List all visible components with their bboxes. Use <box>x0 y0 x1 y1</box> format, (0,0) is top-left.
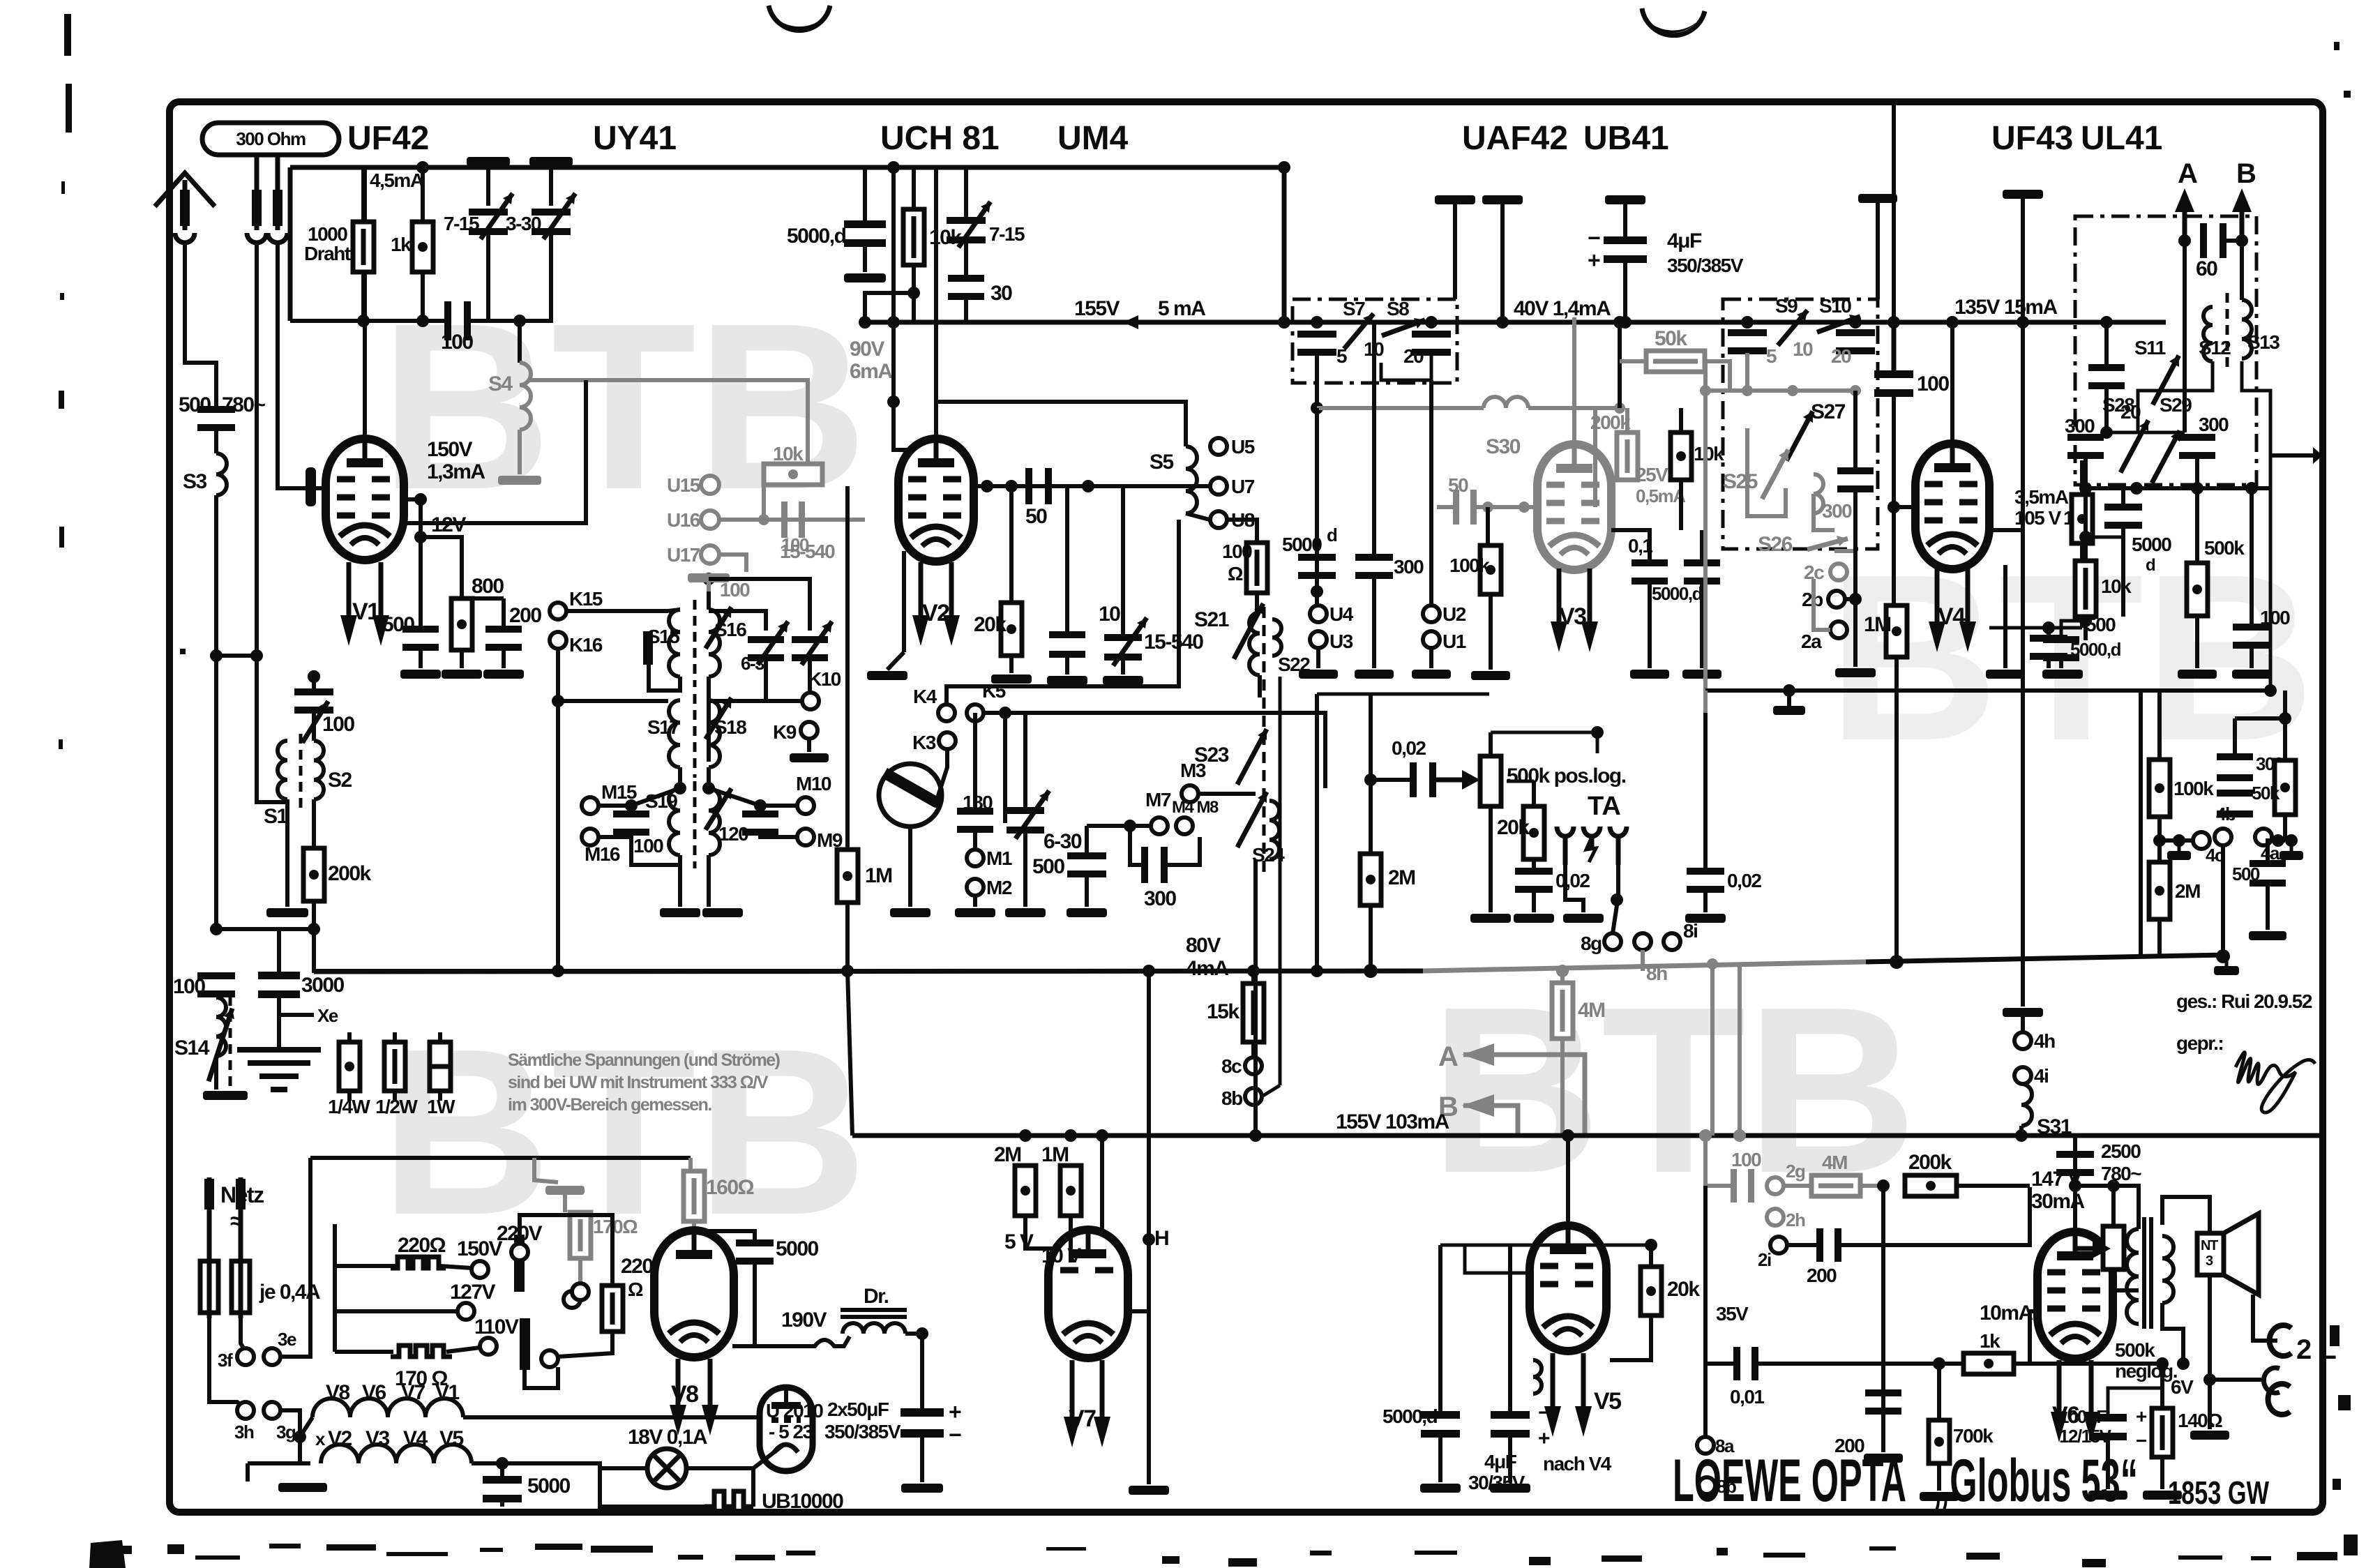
wire 2990 down <box>2084 488 2088 495</box>
capacitor 100 e <box>1874 370 1913 397</box>
wire sel 150V <box>440 1266 472 1268</box>
svg-text:300: 300 <box>1394 556 1424 578</box>
junction V5 anode <box>1562 1129 1574 1142</box>
label 0,1 <box>1628 535 1652 557</box>
label 20k ta <box>1497 816 1530 839</box>
transformer S1S2 core <box>299 734 303 809</box>
terminal 4a <box>2255 829 2280 864</box>
label 10k gray <box>773 443 804 465</box>
legend stubs <box>349 1032 440 1101</box>
wire S14 gnd <box>214 1059 218 1090</box>
wire cathode link <box>1989 626 2082 630</box>
svg-text:50k: 50k <box>1655 327 1687 350</box>
wire hr2 right <box>472 1463 600 1468</box>
svg-text:110V: 110V <box>474 1316 519 1339</box>
capacitor 100 coupling <box>444 301 471 340</box>
svg-text:M16: M16 <box>585 843 620 865</box>
wire 4Mi down <box>1881 1186 1885 1423</box>
ground 5000dv5 <box>1420 1484 1461 1493</box>
label 90V (gray) <box>850 338 884 361</box>
terminal 8g <box>1581 933 1621 954</box>
wire U16 right (gray) <box>719 518 865 522</box>
label 5000d f <box>2070 639 2121 660</box>
wire trim IF bottoms <box>709 660 766 701</box>
wire box right down <box>1381 354 1431 380</box>
label 50 gray <box>1448 474 1468 496</box>
junction pot top <box>1591 726 1604 739</box>
label 80V <box>1186 934 1221 957</box>
label S10 <box>1819 295 1851 317</box>
svg-text:2g: 2g <box>1786 1161 1805 1182</box>
ground 140 <box>2143 1491 2182 1500</box>
svg-text:K16: K16 <box>569 634 603 656</box>
wire 20k branch <box>1009 486 1014 603</box>
resistor 220ohm sel <box>391 1257 446 1268</box>
wire bus2 up at 1800 <box>1253 971 1258 1136</box>
wire loop to 160ohm <box>688 1158 693 1171</box>
junction hr left <box>294 1431 306 1443</box>
label 30/35V <box>1468 1472 1525 1493</box>
ground 15-540 <box>1103 676 1143 685</box>
label 30 osc <box>990 282 1012 305</box>
terminal 8b <box>1221 1087 1262 1109</box>
capacitor 300 s25 <box>1837 467 1874 492</box>
IF1 core <box>693 600 697 687</box>
tube designator V7 <box>1069 1405 1096 1432</box>
coil S31 <box>2021 1084 2032 1126</box>
wire 5000 top stub <box>863 166 867 223</box>
resistor 170 gray v <box>570 1212 591 1258</box>
wire 2445 to 990 <box>1703 691 1708 713</box>
label V7 h <box>401 1381 425 1404</box>
svg-text:100: 100 <box>173 975 205 998</box>
wire S13 bottom <box>2242 361 2270 460</box>
wire shunt bot <box>2113 1269 2139 1290</box>
capacitor 0.02 right <box>1687 868 1724 893</box>
top bus left segment <box>290 167 1284 321</box>
wire 300f1 down <box>2084 458 2088 488</box>
svg-text:5000,d: 5000,d <box>1652 583 1703 604</box>
label 50 coupl <box>1025 505 1047 528</box>
resistor 1k <box>412 222 433 272</box>
label d f <box>2146 556 2155 575</box>
tube V5 <box>1530 1226 1606 1351</box>
wire S3 down <box>214 495 218 929</box>
resistor 15k <box>1243 983 1264 1042</box>
wire IF1 right top up <box>707 579 711 610</box>
label 100k v3 <box>1449 555 1490 576</box>
junction trimmers <box>513 315 526 327</box>
wire M10 wiring <box>760 806 797 817</box>
wire sel left col <box>333 1224 337 1352</box>
wire 10kf down <box>2084 617 2088 640</box>
label S25 <box>1723 470 1758 493</box>
label V3 h <box>366 1427 390 1450</box>
terminal 220V <box>511 1244 528 1260</box>
svg-text:300: 300 <box>1822 500 1852 522</box>
tube label UY41 <box>593 120 677 157</box>
junction row700 c <box>2191 482 2203 495</box>
IF2 coil S18 <box>709 700 720 767</box>
label 5mA <box>1158 297 1205 320</box>
svg-text:5 mA: 5 mA <box>1158 297 1205 320</box>
label S27 <box>1811 400 1846 423</box>
TA fork 1 <box>1557 827 1574 865</box>
wire 1ki to 140 <box>2038 1362 2162 1366</box>
terminal 3f <box>218 1348 254 1371</box>
junction 3255 bus990 <box>2264 684 2277 697</box>
terminal U1 <box>1423 631 1466 652</box>
wire 5000dv5 down <box>1438 1435 1442 1482</box>
wire 200i right <box>1841 1187 2030 1245</box>
signature <box>2236 1053 2315 1113</box>
wire S4 tap right (gray) <box>529 380 808 481</box>
wire 50k right (gray) <box>1705 361 1730 391</box>
capacitor 0.1 <box>1632 559 1668 585</box>
wire 15k top <box>1251 971 1256 983</box>
junction 140 top b <box>2177 1357 2190 1370</box>
junction 2M bus <box>1364 964 1378 978</box>
wire 60 to B <box>2225 239 2242 243</box>
svg-text:170Ω: 170Ω <box>593 1216 638 1237</box>
junction gray g1 <box>1482 502 1493 513</box>
coil S13 <box>2242 300 2252 359</box>
junction S2-top2 <box>308 670 320 683</box>
wire 10k ub41 down <box>1679 480 1683 530</box>
resistor 50k r <box>2275 760 2296 815</box>
wire plug2 down-lead <box>255 243 259 741</box>
svg-text:5: 5 <box>1336 345 1347 367</box>
junction V4 anode bus <box>1946 316 1959 329</box>
wire 300 gnd <box>1372 578 1376 668</box>
wire M9 wiring <box>760 829 797 837</box>
ground IF3 right <box>702 908 743 917</box>
mains lead 1 <box>204 1177 214 1261</box>
wire anode node up <box>2073 1136 2077 1186</box>
svg-text:K10: K10 <box>808 668 841 690</box>
tube V8 <box>654 1230 734 1357</box>
wire 12V node branches <box>419 537 423 628</box>
bus 155V <box>865 320 1876 325</box>
junction V4 grid <box>1887 501 1900 513</box>
wire K16 node down <box>556 701 560 971</box>
wire cap to S2 <box>312 712 316 741</box>
wire 160 down <box>692 1221 696 1231</box>
legend resistor 1W <box>427 1042 455 1117</box>
wire 8b tail <box>1262 1085 1280 1096</box>
capacitor 200 i <box>1816 1228 1841 1262</box>
wire gray S30 right <box>1528 406 1620 410</box>
junction 10kf bot <box>2079 615 2092 627</box>
wire 1215 link down <box>847 971 852 1136</box>
terminal M3 <box>1180 760 1206 802</box>
wire S1 bottom gnd <box>285 799 289 907</box>
junction gray 2322 <box>1614 402 1625 414</box>
switch S26 pointer <box>1807 536 1848 550</box>
wire gray link S30 <box>1317 406 1484 410</box>
wire 80 up <box>973 713 977 815</box>
wire 5000f down <box>2121 527 2125 617</box>
label 500 r <box>2232 864 2260 884</box>
wire s25 out <box>1853 391 1858 469</box>
svg-text:100: 100 <box>1731 1149 1761 1170</box>
wire hr left gnd <box>248 1461 300 1465</box>
tube label UB41 <box>1583 120 1669 157</box>
label S5 <box>1150 451 1174 474</box>
junction row460 b <box>416 315 429 327</box>
bus arrow marker <box>1123 315 1138 329</box>
wire TA fork3 down <box>1613 865 1618 933</box>
label 15-540 top (gray) <box>780 541 835 562</box>
wire sel wiring1 <box>335 1264 395 1268</box>
wire 4b down <box>2221 845 2225 956</box>
wire row700 tail <box>2269 460 2273 488</box>
tube V2 (UCH81) <box>898 439 974 561</box>
svg-text:3: 3 <box>2206 1253 2213 1269</box>
trimmer 7-15 osc <box>947 202 990 248</box>
switch arrow S24b <box>1237 792 1267 847</box>
label 180 <box>963 792 993 813</box>
svg-text:nach V4: nach V4 <box>1543 1453 1612 1475</box>
junction 20kv5 top <box>1645 1239 1657 1251</box>
svg-text:0,02: 0,02 <box>1555 870 1590 891</box>
label S19 <box>645 790 677 812</box>
label 1k i <box>1980 1330 2000 1352</box>
wire S12 down <box>2138 361 2213 432</box>
left margin scan marks <box>59 14 186 749</box>
svg-text:50k: 50k <box>2252 783 2280 804</box>
svg-text:d: d <box>1327 525 1337 545</box>
wire V4 anode up <box>1950 322 1954 444</box>
svg-text:100: 100 <box>1917 372 1949 395</box>
switch arrow S11 <box>2153 356 2179 405</box>
wire 5000f up <box>2121 488 2125 505</box>
terminal 8b i <box>1698 1476 1736 1497</box>
wire 3g to heater chain <box>280 1410 300 1437</box>
wire 50k mid <box>2283 718 2287 760</box>
wire sel 110V <box>446 1348 480 1352</box>
junction IF3 mid <box>674 782 686 794</box>
heater arrows V4 <box>1929 568 1976 652</box>
wire 6-30 up <box>1023 713 1027 808</box>
svg-text:4M: 4M <box>1578 999 1605 1022</box>
terminal 8c <box>1221 1055 1262 1077</box>
wire 002r up <box>1703 713 1708 869</box>
wire elco down <box>920 1435 924 1482</box>
wire hr2 left <box>300 1437 310 1463</box>
svg-text:S31: S31 <box>2037 1115 2072 1138</box>
resistor 50k (gray) <box>1646 351 1705 372</box>
capacitor 5000 top <box>844 220 886 247</box>
capacitor 0.02 ta <box>1515 868 1553 893</box>
label 200k i <box>1908 1151 1952 1174</box>
wire lamp left <box>600 1466 647 1470</box>
label 100 coupling <box>441 331 473 354</box>
junction box right <box>1425 316 1438 329</box>
junction M10 node <box>754 799 767 812</box>
mains lead 2 <box>236 1177 246 1261</box>
svg-text:15-540: 15-540 <box>780 541 835 562</box>
node row 460 <box>290 319 444 323</box>
wire spk bottom <box>2208 1275 2212 1429</box>
svg-text:UM4: UM4 <box>1057 120 1129 157</box>
wire 3e to selector <box>280 1158 310 1357</box>
wire gray 50cap row <box>1437 505 1453 509</box>
wire 700k up <box>1937 1364 1941 1420</box>
legend resistor 1/2W <box>375 1042 418 1117</box>
wire 1k v4 top <box>2080 460 2084 495</box>
wire 5000 gnd stub <box>863 245 867 272</box>
junction IF1 top <box>702 573 715 585</box>
svg-text:5000: 5000 <box>527 1475 571 1498</box>
trimmer 6-30 <box>1007 791 1049 839</box>
svg-text:K3: K3 <box>912 732 936 753</box>
label S4 (gray) <box>488 372 513 395</box>
label 5000 f <box>2132 534 2171 555</box>
capacitor 300 r2 <box>2217 790 2253 817</box>
wire 20k gnd <box>1009 656 1014 673</box>
switch arrow S28 <box>2120 420 2148 472</box>
svg-text:100: 100 <box>441 331 473 354</box>
antenna plug 1 <box>175 180 195 243</box>
arrow B up <box>2232 188 2252 241</box>
junction 12V <box>414 531 427 543</box>
mid bus 1392 right black <box>1866 955 2226 962</box>
switch box S9S10 <box>1723 299 1878 549</box>
svg-text:2M: 2M <box>1388 866 1415 889</box>
junction s11 bot <box>2100 426 2113 439</box>
ground M2 <box>955 908 995 917</box>
label 150V sel <box>457 1237 503 1260</box>
wire gnd to trim 3-30 <box>549 166 553 206</box>
svg-text:2500: 2500 <box>2101 1140 2141 1162</box>
switch arrow S9 <box>1778 310 1807 346</box>
wire cap100 to trimmer node <box>471 319 520 323</box>
wire 5000d gnd <box>1315 578 1319 605</box>
terminal 8i <box>1664 920 1697 950</box>
svg-text:10k: 10k <box>1694 443 1724 465</box>
label 0,02 r <box>1727 870 1761 891</box>
terminal 127V <box>458 1303 474 1320</box>
svg-text:8c: 8c <box>1221 1055 1242 1077</box>
resistor 20k osc <box>1001 603 1022 656</box>
wire 4uFv5 up <box>1508 1245 1512 1413</box>
label 220 v <box>621 1255 653 1278</box>
antenna symbol <box>155 173 215 206</box>
wire hook1 wiring <box>2253 1295 2277 1341</box>
tube label UF43 <box>1991 120 2073 157</box>
ground 5000 top <box>844 273 886 282</box>
wire V2 cathode <box>887 551 904 670</box>
junction bus2 c <box>1096 1129 1108 1142</box>
label 10V <box>1041 1244 1081 1267</box>
ground 990 <box>1773 691 1805 715</box>
capacitor 300 r1 <box>2217 753 2253 781</box>
junction cath <box>2042 621 2055 634</box>
svg-text:30: 30 <box>990 282 1012 305</box>
wire v5 top link <box>1440 1244 1651 1247</box>
wire M3 to S24 <box>1198 792 1256 796</box>
ground 200cap <box>483 670 524 679</box>
svg-text:+: + <box>949 1399 961 1424</box>
capacitor 5000d v5 <box>1421 1411 1460 1438</box>
wire V7 anode up <box>1100 1136 1104 1230</box>
svg-text:3g: 3g <box>276 1422 296 1442</box>
svg-text:20k: 20k <box>1667 1278 1700 1301</box>
wire 300f2 down <box>2195 458 2199 488</box>
junction 990 a <box>1783 684 1795 697</box>
label 5000 top <box>787 225 846 248</box>
svg-text:300: 300 <box>2065 415 2095 437</box>
wire 1281 to V2 grid row <box>894 402 914 450</box>
svg-text:700k: 700k <box>1953 1425 1994 1447</box>
wire s25 wiring gray <box>1747 428 1786 516</box>
label 10 box <box>1364 338 1384 360</box>
label 35V <box>1716 1303 1749 1325</box>
wire V2 screen line <box>912 293 916 322</box>
label 3,5mA <box>2014 486 2069 508</box>
label 135V 15mA <box>1954 296 2057 319</box>
tube designator V2 <box>922 600 949 626</box>
wire 50k up <box>2283 691 2287 718</box>
wire elco up <box>920 1334 924 1410</box>
box UL41 dashdot <box>2075 216 2256 485</box>
IF1 coil S15 <box>669 610 680 677</box>
wire M15 wiring <box>598 806 631 817</box>
wire 100k r down <box>2157 817 2162 862</box>
svg-text:500k: 500k <box>2204 537 2245 559</box>
label 5000 d <box>1282 534 1322 555</box>
binder hole left <box>769 6 830 31</box>
title Globus <box>1932 1447 2138 1514</box>
wire hr gnd drop <box>246 1463 250 1482</box>
svg-text:UY41: UY41 <box>593 120 677 157</box>
wire 20k ta top <box>1532 781 1536 806</box>
tube label UM4 <box>1057 120 1129 157</box>
wire bus155 down at 1281 <box>891 322 896 402</box>
label H <box>1154 1227 1168 1250</box>
switch arrow S7 <box>1344 314 1373 349</box>
svg-text:U4: U4 <box>1329 603 1354 625</box>
label x h <box>315 1428 326 1449</box>
label 100 M <box>633 835 663 857</box>
junction gray row b <box>1787 385 1798 396</box>
label 100 lower-left <box>173 975 205 998</box>
svg-text:300: 300 <box>2199 414 2229 435</box>
label 5V <box>1004 1230 1034 1253</box>
svg-text:25V: 25V <box>1636 464 1668 485</box>
wire 100e up <box>1892 102 1896 372</box>
heater arrows V6 <box>2051 1360 2100 1442</box>
terminal 150V <box>472 1261 488 1278</box>
label M4M8 <box>1172 798 1219 817</box>
mid bus 1392 black <box>314 971 1423 972</box>
IF3 coil S19 <box>669 788 680 855</box>
svg-text:0,02: 0,02 <box>1392 737 1426 759</box>
junction v3 out <box>1364 774 1377 786</box>
wire bus240-bus462 link <box>1282 167 1287 322</box>
label 100 S2 <box>322 713 354 736</box>
wire 20f down <box>2104 388 2109 432</box>
wire 15-540 up <box>1121 486 1125 635</box>
switch arrow S25 <box>1762 450 1788 499</box>
wire trim osc vert <box>964 166 968 218</box>
wire 300r up <box>2233 718 2237 760</box>
resistor 1k v4 <box>2072 495 2093 543</box>
resistor 20k v5 <box>1641 1267 1662 1316</box>
wire 3132 to S28row <box>2107 431 2185 435</box>
wire 4h stub <box>2021 1017 2025 1032</box>
